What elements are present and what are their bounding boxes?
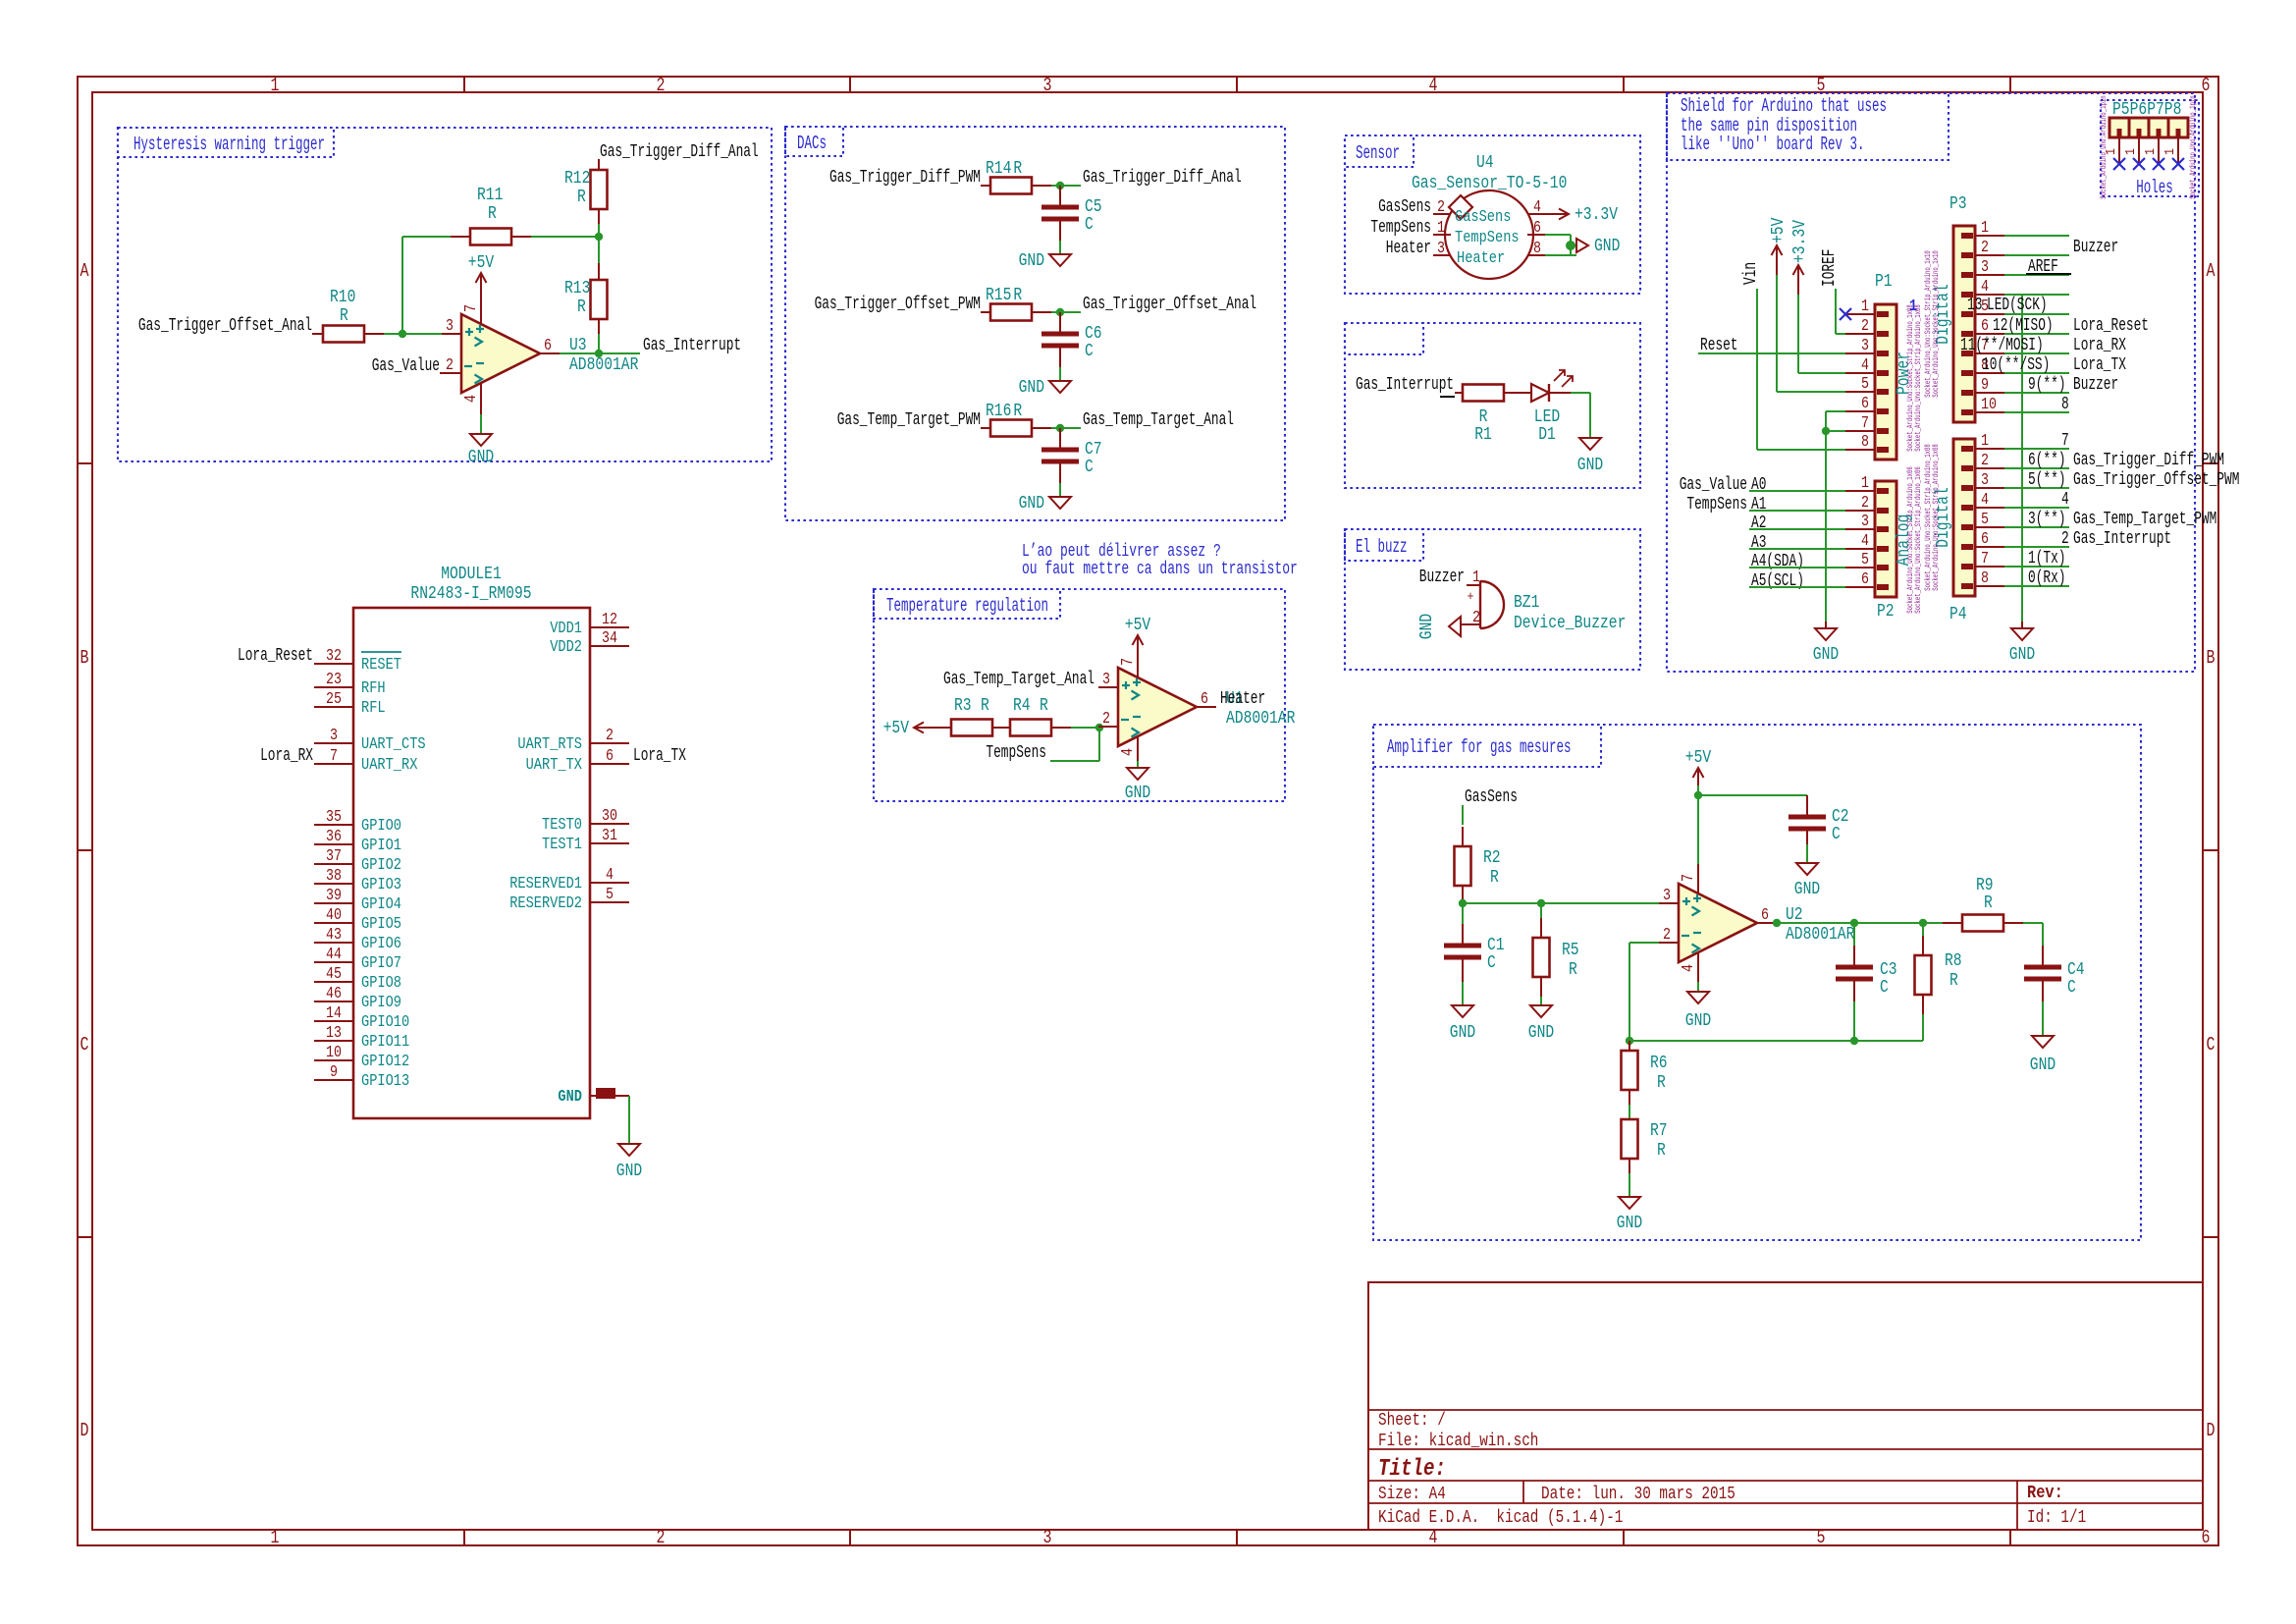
svg-text:UART_CTS: UART_CTS xyxy=(361,735,426,754)
svg-text:Socket_Arduino_Uno:Socket_Stri: Socket_Arduino_Uno:Socket_Strip_Arduino_… xyxy=(1932,444,1941,591)
svg-text:Gas_Trigger_Diff_PWM: Gas_Trigger_Diff_PWM xyxy=(2073,451,2224,470)
svg-text:3: 3 xyxy=(1981,471,1989,490)
svg-text:VDD1: VDD1 xyxy=(550,620,582,638)
svg-text:RESERVED1: RESERVED1 xyxy=(509,875,582,893)
svg-text:3: 3 xyxy=(1102,671,1110,689)
svg-text:3: 3 xyxy=(446,317,454,336)
svg-text:C1: C1 xyxy=(1487,936,1505,955)
svg-text:TEST0: TEST0 xyxy=(542,816,582,835)
svg-text:R: R xyxy=(1040,696,1048,716)
svg-text:Heater: Heater xyxy=(1220,689,1265,709)
svg-text:23: 23 xyxy=(326,671,342,689)
svg-text:R8: R8 xyxy=(1945,951,1962,971)
svg-text:R: R xyxy=(1013,286,1022,305)
svg-text:File: kicad_win.sch: File: kicad_win.sch xyxy=(1378,1432,1538,1451)
svg-text:RN2483-I_RM095: RN2483-I_RM095 xyxy=(410,584,531,604)
svg-text:ou faut mettre ca dans un tran: ou faut mettre ca dans un transistor xyxy=(1022,560,1298,579)
svg-text:12(MISO): 12(MISO) xyxy=(1993,316,2054,336)
svg-text:GPIO3: GPIO3 xyxy=(361,876,401,894)
svg-text:R5: R5 xyxy=(1562,941,1579,960)
svg-text:L’ao peut délivrer assez ?: L’ao peut délivrer assez ? xyxy=(1022,542,1221,562)
svg-text:3: 3 xyxy=(1043,1527,1052,1548)
svg-text:D: D xyxy=(2207,1420,2216,1441)
svg-text:Device_Buzzer: Device_Buzzer xyxy=(1514,614,1626,633)
svg-text:R: R xyxy=(340,306,348,326)
svg-text:R: R xyxy=(577,298,586,317)
svg-text:0(Rx): 0(Rx) xyxy=(2028,568,2066,588)
svg-text:32: 32 xyxy=(326,647,342,666)
svg-text:R3: R3 xyxy=(954,696,972,716)
svg-text:10: 10 xyxy=(326,1044,342,1062)
svg-text:C4: C4 xyxy=(2067,960,2085,980)
svg-text:GND: GND xyxy=(2030,1056,2056,1075)
svg-text:GND: GND xyxy=(1577,456,1603,475)
svg-text:Vin: Vin xyxy=(1741,262,1761,285)
svg-text:Gas_Interrupt: Gas_Interrupt xyxy=(643,336,741,355)
svg-text:Gas_Temp_Target_PWM: Gas_Temp_Target_PWM xyxy=(837,410,981,430)
svg-text:C: C xyxy=(2207,1034,2216,1056)
svg-text:GND: GND xyxy=(616,1162,642,1181)
svg-text:P3: P3 xyxy=(1949,194,1967,214)
svg-text:Amplifier for gas mesures: Amplifier for gas mesures xyxy=(1387,736,1572,758)
svg-text:8: 8 xyxy=(2061,395,2069,414)
svg-text:Title:: Title: xyxy=(1378,1456,1446,1483)
svg-text:7: 7 xyxy=(462,304,481,312)
svg-text:Socket_Arduino_Uno:Arduino_1pi: Socket_Arduino_Uno:Arduino_1pin xyxy=(2100,95,2109,199)
svg-text:Hysteresis warning trigger: Hysteresis warning trigger xyxy=(133,134,325,155)
svg-text:2: 2 xyxy=(446,356,454,375)
svg-text:GND: GND xyxy=(558,1088,582,1107)
svg-text:44: 44 xyxy=(326,946,342,964)
svg-text:Lora_Reset: Lora_Reset xyxy=(2073,316,2149,336)
svg-text:GPIO12: GPIO12 xyxy=(361,1053,409,1071)
svg-text:UART_TX: UART_TX xyxy=(526,756,582,775)
svg-text:6: 6 xyxy=(1981,317,1989,336)
svg-text:GPIO2: GPIO2 xyxy=(361,856,401,875)
svg-text:3(**): 3(**) xyxy=(2028,510,2066,529)
svg-text:GPIO10: GPIO10 xyxy=(361,1013,409,1032)
svg-text:GND: GND xyxy=(1125,784,1150,803)
svg-text:1: 1 xyxy=(271,75,280,96)
svg-text:13: 13 xyxy=(326,1024,342,1043)
svg-text:Rev:: Rev: xyxy=(2027,1484,2063,1503)
svg-text:6: 6 xyxy=(1981,530,1989,549)
svg-text:+3.3V: +3.3V xyxy=(1790,220,1810,263)
svg-text:1: 1 xyxy=(1909,298,1917,316)
svg-text:C5: C5 xyxy=(1085,197,1102,217)
svg-text:2: 2 xyxy=(606,727,614,745)
svg-text:Gas_Temp_Target_PWM: Gas_Temp_Target_PWM xyxy=(2073,510,2216,529)
svg-text:P4: P4 xyxy=(1949,605,1967,624)
svg-text:Gas_Temp_Target_Anal: Gas_Temp_Target_Anal xyxy=(943,670,1095,689)
svg-text:GPIO0: GPIO0 xyxy=(361,817,401,836)
svg-text:TEST1: TEST1 xyxy=(542,836,582,854)
svg-text:MODULE1: MODULE1 xyxy=(441,565,502,584)
svg-text:GPIO11: GPIO11 xyxy=(361,1033,409,1052)
svg-text:R: R xyxy=(1013,402,1022,421)
svg-text:AD8001AR: AD8001AR xyxy=(1786,925,1855,945)
svg-text:6: 6 xyxy=(1761,906,1769,925)
svg-text:AD8001AR: AD8001AR xyxy=(1226,709,1296,729)
svg-text:TempSens: TempSens xyxy=(1686,495,1747,514)
svg-text:31: 31 xyxy=(602,827,617,845)
svg-text:2: 2 xyxy=(1861,317,1869,336)
svg-text:AD8001AR: AD8001AR xyxy=(569,355,639,375)
svg-text:GND: GND xyxy=(1794,880,1820,899)
svg-text:Gas_Trigger_Diff_Anal: Gas_Trigger_Diff_Anal xyxy=(600,142,759,162)
svg-text:C2: C2 xyxy=(1832,807,1849,827)
svg-text:39: 39 xyxy=(326,887,342,905)
svg-text:Lora_RX: Lora_RX xyxy=(260,746,313,766)
svg-text:R: R xyxy=(1479,407,1488,427)
svg-text:B: B xyxy=(2207,647,2216,669)
svg-text:Lora_Reset: Lora_Reset xyxy=(238,646,313,666)
svg-text:Sheet: /: Sheet: / xyxy=(1378,1411,1446,1431)
svg-text:Id: 1/1: Id: 1/1 xyxy=(2027,1508,2086,1528)
svg-text:6: 6 xyxy=(1201,690,1208,709)
svg-text:GPIO1: GPIO1 xyxy=(361,837,401,855)
svg-text:C: C xyxy=(1880,978,1889,998)
svg-text:1: 1 xyxy=(2123,148,2139,155)
svg-text:25: 25 xyxy=(326,690,342,709)
svg-text:R: R xyxy=(981,696,989,716)
svg-text:Gas_Trigger_Diff_Anal: Gas_Trigger_Diff_Anal xyxy=(1083,168,1242,188)
svg-text:35: 35 xyxy=(326,808,342,827)
svg-text:4: 4 xyxy=(1981,491,1989,510)
svg-text:Lora_TX: Lora_TX xyxy=(633,746,686,766)
svg-text:38: 38 xyxy=(326,867,342,886)
svg-text:1: 1 xyxy=(1861,298,1869,316)
svg-text:Holes: Holes xyxy=(2136,177,2173,198)
svg-text:7: 7 xyxy=(1981,550,1989,568)
svg-text:BZ1: BZ1 xyxy=(1514,593,1539,613)
svg-text:45: 45 xyxy=(326,965,342,984)
svg-text:GPIO7: GPIO7 xyxy=(361,954,401,973)
svg-text:43: 43 xyxy=(326,926,342,945)
svg-text:Gas_Trigger_Offset_PWM: Gas_Trigger_Offset_PWM xyxy=(815,295,981,314)
svg-text:7: 7 xyxy=(2061,431,2069,451)
svg-text:R2: R2 xyxy=(1483,848,1501,868)
svg-text:Sensor: Sensor xyxy=(1356,142,1400,164)
svg-text:5: 5 xyxy=(606,886,614,904)
svg-text:Gas_Value: Gas_Value xyxy=(1680,475,1747,495)
svg-text:3: 3 xyxy=(1861,337,1869,355)
svg-text:7: 7 xyxy=(1119,658,1138,666)
svg-text:C3: C3 xyxy=(1880,960,1897,980)
svg-text:R: R xyxy=(1949,971,1958,991)
svg-text:Gas_Interrupt: Gas_Interrupt xyxy=(1356,375,1454,395)
svg-text:R12: R12 xyxy=(564,169,590,189)
svg-text:UART_RX: UART_RX xyxy=(361,756,417,775)
svg-text:10(**/SS): 10(**/SS) xyxy=(1982,355,2050,375)
svg-text:+5V: +5V xyxy=(1685,748,1712,768)
svg-text:10: 10 xyxy=(1981,396,1997,414)
svg-text:5: 5 xyxy=(1861,551,1869,569)
svg-text:Lora_TX: Lora_TX xyxy=(2073,355,2126,375)
svg-text:8: 8 xyxy=(1861,433,1869,452)
svg-text:5: 5 xyxy=(1981,511,1989,529)
svg-text:7: 7 xyxy=(1680,874,1698,882)
svg-text:+: + xyxy=(1468,589,1474,604)
svg-text:+5V: +5V xyxy=(1125,616,1151,635)
svg-text:GND: GND xyxy=(1019,494,1044,514)
svg-text:RFH: RFH xyxy=(361,679,386,698)
svg-text:R6: R6 xyxy=(1650,1054,1668,1073)
svg-text:4: 4 xyxy=(462,395,481,403)
svg-text:Heater: Heater xyxy=(1386,239,1431,258)
svg-text:1(Tx): 1(Tx) xyxy=(2028,549,2066,568)
svg-text:GND: GND xyxy=(1019,251,1044,271)
svg-text:Heater: Heater xyxy=(1457,249,1505,268)
svg-text:1: 1 xyxy=(2163,148,2178,155)
svg-text:D: D xyxy=(80,1420,89,1441)
svg-text:R1: R1 xyxy=(1474,425,1492,445)
svg-text:C7: C7 xyxy=(1085,440,1102,460)
svg-text:3: 3 xyxy=(1981,258,1989,277)
svg-text:Socket_Arduino_Uno:Socket_Stri: Socket_Arduino_Uno:Socket_Strip_Arduino_… xyxy=(1914,466,1923,614)
svg-text:GasSens: GasSens xyxy=(1378,197,1431,217)
svg-text:GND: GND xyxy=(468,448,494,467)
svg-text:VDD2: VDD2 xyxy=(550,638,582,657)
svg-text:7: 7 xyxy=(1861,414,1869,433)
svg-text:A: A xyxy=(80,260,89,282)
svg-text:TempSens: TempSens xyxy=(1455,229,1520,247)
svg-text:+5V: +5V xyxy=(883,719,910,738)
svg-text:37: 37 xyxy=(326,847,342,866)
svg-text:GPIO13: GPIO13 xyxy=(361,1072,409,1091)
svg-text:GPIO6: GPIO6 xyxy=(361,935,401,953)
svg-text:GND: GND xyxy=(1019,378,1044,398)
svg-text:4: 4 xyxy=(1680,964,1698,972)
svg-text:P2: P2 xyxy=(1877,602,1895,622)
svg-text:11(**/MOSI): 11(**/MOSI) xyxy=(1960,336,2044,355)
svg-text:El buzz: El buzz xyxy=(1356,536,1408,558)
svg-text:LED: LED xyxy=(1534,407,1560,427)
svg-text:GND: GND xyxy=(1813,645,1839,665)
svg-text:Gas_Trigger_Diff_PWM: Gas_Trigger_Diff_PWM xyxy=(829,168,981,188)
svg-text:R: R xyxy=(1657,1141,1666,1161)
svg-text:C: C xyxy=(2067,978,2076,998)
svg-text:P1: P1 xyxy=(1875,272,1893,292)
svg-text:+5V: +5V xyxy=(1769,217,1789,244)
svg-text:5: 5 xyxy=(1861,375,1869,394)
svg-text:+3.3V: +3.3V xyxy=(1575,205,1618,225)
svg-text:Gas_Trigger_Offset_Anal: Gas_Trigger_Offset_Anal xyxy=(138,316,312,336)
svg-text:3: 3 xyxy=(1663,887,1671,905)
svg-text:R14: R14 xyxy=(986,159,1011,179)
svg-text:LED(SCK): LED(SCK) xyxy=(1987,296,2048,315)
svg-text:C: C xyxy=(1832,825,1841,844)
svg-text:2: 2 xyxy=(1861,494,1869,513)
svg-text:UART_RTS: UART_RTS xyxy=(517,735,582,754)
svg-text:1: 1 xyxy=(1861,474,1869,493)
svg-text:GND: GND xyxy=(1685,1011,1711,1031)
svg-text:6: 6 xyxy=(1861,570,1869,589)
svg-text:RFL: RFL xyxy=(361,699,386,718)
svg-text:Socket_Arduino_Uno:Socket_Stri: Socket_Arduino_Uno:Socket_Strip_Arduino_… xyxy=(1932,250,1941,398)
svg-text:Date: lun. 30 mars 2015: Date: lun. 30 mars 2015 xyxy=(1541,1485,1735,1504)
svg-text:5(**): 5(**) xyxy=(2028,470,2066,490)
svg-text:4: 4 xyxy=(2061,490,2069,510)
svg-text:9: 9 xyxy=(1981,376,1989,395)
svg-text:Gas_Trigger_Offset_PWM: Gas_Trigger_Offset_PWM xyxy=(2073,470,2239,490)
svg-text:Shield for Arduino that uses: Shield for Arduino that uses xyxy=(1681,95,1887,117)
svg-text:2: 2 xyxy=(1102,710,1110,729)
svg-text:R15: R15 xyxy=(986,286,1011,305)
svg-text:GasSens: GasSens xyxy=(1455,208,1511,227)
svg-text:GasSens: GasSens xyxy=(1465,787,1518,807)
svg-text:R10: R10 xyxy=(330,288,355,307)
svg-text:14: 14 xyxy=(326,1004,342,1023)
svg-text:R13: R13 xyxy=(564,279,590,298)
svg-text:1: 1 xyxy=(2143,148,2159,155)
svg-text:R7: R7 xyxy=(1650,1121,1668,1141)
svg-text:GPIO9: GPIO9 xyxy=(361,994,401,1012)
svg-text:2: 2 xyxy=(1981,239,1989,257)
svg-text:R: R xyxy=(488,204,497,224)
svg-text:4: 4 xyxy=(1861,356,1869,375)
svg-text:Gas_Trigger_Offset_Anal: Gas_Trigger_Offset_Anal xyxy=(1083,295,1256,314)
svg-text:R: R xyxy=(1013,159,1022,179)
svg-text:1: 1 xyxy=(1981,219,1989,238)
svg-text:B: B xyxy=(80,647,89,669)
svg-text:46: 46 xyxy=(326,985,342,1003)
svg-text:R9: R9 xyxy=(1976,876,1994,895)
svg-text:30: 30 xyxy=(602,807,617,826)
svg-text:GND: GND xyxy=(1594,237,1620,256)
svg-text:34: 34 xyxy=(602,629,617,648)
svg-text:C: C xyxy=(1487,953,1496,973)
svg-text:C: C xyxy=(1085,215,1094,235)
svg-text:GPIO4: GPIO4 xyxy=(361,895,401,914)
svg-text:Buzzer: Buzzer xyxy=(1419,568,1465,587)
svg-text:2: 2 xyxy=(1981,452,1989,470)
svg-text:4: 4 xyxy=(1119,748,1138,756)
svg-text:A: A xyxy=(2207,260,2216,282)
svg-text:GPIO8: GPIO8 xyxy=(361,974,401,993)
svg-text:C6: C6 xyxy=(1085,324,1102,344)
svg-text:KiCad E.D.A. kicad (5.1.4)-1: KiCad E.D.A. kicad (5.1.4)-1 xyxy=(1378,1508,1623,1528)
svg-text:R: R xyxy=(1490,868,1499,888)
svg-text:C: C xyxy=(1085,342,1094,361)
svg-text:D1: D1 xyxy=(1538,425,1556,445)
svg-text:GND: GND xyxy=(1617,1214,1642,1233)
svg-text:RESERVED2: RESERVED2 xyxy=(509,894,582,913)
svg-text:8: 8 xyxy=(1981,569,1989,588)
svg-text:3: 3 xyxy=(1861,513,1869,531)
svg-text:+5V: +5V xyxy=(468,253,495,273)
svg-text:3: 3 xyxy=(1043,75,1052,96)
svg-text:Size: A4: Size: A4 xyxy=(1378,1485,1446,1504)
svg-text:9(**): 9(**) xyxy=(2028,375,2066,395)
svg-text:1: 1 xyxy=(1981,432,1989,451)
svg-text:Socket_Arduino_Uno:Socket_Stri: Socket_Arduino_Uno:Socket_Strip_Arduino_… xyxy=(1914,304,1923,452)
svg-text:Buzzer: Buzzer xyxy=(2073,375,2118,395)
svg-text:GPIO5: GPIO5 xyxy=(361,915,401,934)
svg-text:40: 40 xyxy=(326,906,342,925)
svg-text:R: R xyxy=(1569,960,1577,980)
svg-text:7: 7 xyxy=(330,747,338,766)
svg-text:IOREF: IOREF xyxy=(1820,249,1840,288)
svg-text:GND: GND xyxy=(2009,645,2035,665)
svg-text:TempSens: TempSens xyxy=(1370,218,1431,238)
svg-text:2: 2 xyxy=(657,75,666,96)
svg-text:Gas_Temp_Target_Anal: Gas_Temp_Target_Anal xyxy=(1083,410,1234,430)
svg-text:2: 2 xyxy=(657,1527,666,1548)
svg-text:GND: GND xyxy=(1450,1023,1475,1043)
svg-text:like ''Uno'' board Rev 3.: like ''Uno'' board Rev 3. xyxy=(1681,134,1865,155)
svg-text:C: C xyxy=(1085,458,1094,477)
svg-text:12: 12 xyxy=(602,611,617,629)
svg-text:GND: GND xyxy=(1528,1023,1554,1043)
svg-text:C: C xyxy=(80,1034,89,1056)
svg-text:9: 9 xyxy=(330,1063,338,1082)
svg-text:2: 2 xyxy=(1663,926,1671,945)
svg-text:4: 4 xyxy=(1981,278,1989,297)
svg-text:13: 13 xyxy=(1967,296,1982,315)
svg-text:R11: R11 xyxy=(477,186,503,205)
svg-text:Lora_RX: Lora_RX xyxy=(2073,336,2126,355)
svg-text:1: 1 xyxy=(271,1527,280,1548)
svg-text:6: 6 xyxy=(606,747,614,766)
svg-text:GND: GND xyxy=(1417,614,1437,639)
svg-text:6: 6 xyxy=(1861,395,1869,413)
svg-text:6: 6 xyxy=(2202,75,2211,96)
svg-text:R: R xyxy=(1657,1073,1666,1093)
svg-text:Gas_Value: Gas_Value xyxy=(372,356,440,376)
svg-text:4: 4 xyxy=(606,866,614,885)
svg-text:DACs: DACs xyxy=(797,133,827,154)
svg-text:4: 4 xyxy=(1861,532,1869,551)
svg-text:Gas_Interrupt: Gas_Interrupt xyxy=(2073,529,2171,549)
svg-text:TempSens: TempSens xyxy=(986,743,1046,763)
svg-text:6(**): 6(**) xyxy=(2028,451,2066,470)
svg-text:R: R xyxy=(1984,893,1993,913)
svg-text:36: 36 xyxy=(326,828,342,846)
svg-text:U4: U4 xyxy=(1476,153,1494,173)
svg-text:4: 4 xyxy=(1429,75,1438,96)
svg-text:R: R xyxy=(577,188,586,207)
svg-text:Buzzer: Buzzer xyxy=(2073,238,2118,257)
svg-text:R4: R4 xyxy=(1013,696,1031,716)
svg-text:Socket_Arduino_Uno:Arduino_1pi: Socket_Arduino_Uno:Arduino_1pin xyxy=(2189,95,2198,199)
svg-text:2: 2 xyxy=(2061,529,2069,549)
svg-text:RESET: RESET xyxy=(361,656,401,675)
svg-text:Temperature regulation: Temperature regulation xyxy=(886,595,1048,617)
svg-text:R16: R16 xyxy=(986,402,1011,421)
svg-text:3: 3 xyxy=(330,727,338,745)
